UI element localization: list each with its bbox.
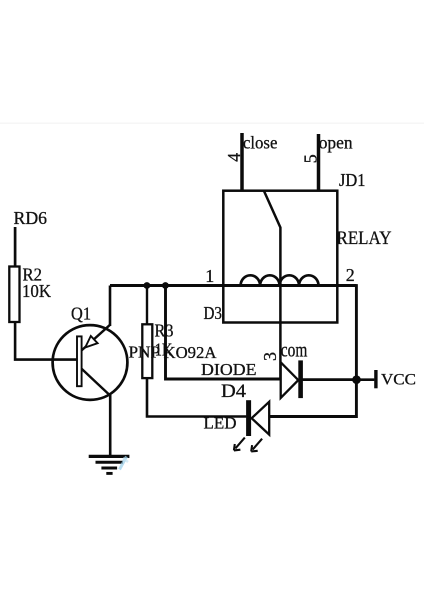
- label D4: [221, 381, 247, 402]
- svg-text:DIODE: DIODE: [201, 360, 257, 379]
- svg-text:Q1: Q1: [71, 304, 91, 324]
- junction node diode rail: [162, 282, 169, 289]
- svg-text:4: 4: [224, 153, 244, 162]
- svg-text:JD1: JD1: [339, 170, 366, 190]
- resistor R2: [9, 267, 19, 323]
- transistor Q1: [53, 325, 128, 400]
- wire pin 4: [240, 133, 244, 191]
- label Q1: [71, 304, 91, 324]
- node RD6 label: [14, 208, 48, 228]
- svg-text:3: 3: [260, 352, 280, 361]
- relay coil: [241, 275, 319, 285]
- watermark smudge: [120, 457, 129, 470]
- wire collector down to ground: [109, 395, 112, 456]
- svg-text:1K: 1K: [155, 339, 173, 359]
- label DIODE: [201, 360, 257, 379]
- wire pin 2 down: [355, 284, 358, 380]
- label open: [319, 133, 353, 153]
- junction node VCC: [352, 375, 361, 384]
- label KO92A: [164, 343, 218, 362]
- pin number 4: [224, 153, 244, 162]
- relay box JD1: [223, 191, 337, 323]
- switch arm and com wire: [264, 191, 280, 380]
- wire emitter up to rail: [109, 286, 112, 327]
- pin number 1: [205, 266, 214, 286]
- wire node to VCC bar: [357, 378, 375, 381]
- pin number 2: [346, 265, 355, 285]
- svg-text:RELAY: RELAY: [337, 228, 392, 249]
- svg-text:2: 2: [346, 265, 355, 285]
- svg-text:R3: R3: [155, 321, 174, 341]
- label R3: [155, 321, 174, 341]
- wire main rail: [110, 284, 356, 287]
- wire D3 cathode to VCC node: [302, 378, 357, 381]
- label close: [243, 133, 278, 153]
- LED D4: [249, 400, 270, 436]
- svg-text:RD6: RD6: [14, 208, 48, 228]
- wire VCC node down to LED: [269, 380, 356, 417]
- svg-text:close: close: [243, 133, 278, 153]
- label JD1: [339, 170, 366, 190]
- value 10K: [22, 281, 51, 301]
- svg-text:com: com: [281, 341, 308, 362]
- label D3: [204, 303, 223, 323]
- wire rail to D3 anode: [166, 286, 281, 380]
- LED arrows: [234, 438, 262, 452]
- wire pin 5: [317, 134, 321, 191]
- value 1K: [155, 339, 173, 359]
- wire R2 to base corner: [15, 323, 77, 360]
- svg-text:1: 1: [205, 266, 214, 286]
- junction node R3: [144, 282, 151, 289]
- diode D3: [281, 360, 301, 398]
- svg-text:LED: LED: [204, 414, 237, 433]
- resistor R3: [142, 324, 152, 378]
- svg-text:VCC: VCC: [381, 372, 416, 389]
- wire R3 to LED: [147, 378, 246, 416]
- svg-text:10K: 10K: [22, 281, 51, 301]
- svg-text:open: open: [319, 133, 353, 153]
- faint scan edge line: [0, 123, 424, 124]
- svg-text:D3: D3: [204, 303, 223, 323]
- wire rail to R3: [146, 286, 148, 325]
- svg-text:5: 5: [301, 154, 321, 163]
- pin number 3: [260, 352, 280, 361]
- label R2: [23, 265, 43, 285]
- svg-text:D4: D4: [221, 381, 247, 402]
- ground: [89, 456, 130, 473]
- label com: [281, 341, 308, 362]
- pin number 5: [301, 154, 321, 163]
- wire RD6 to R2: [14, 227, 17, 266]
- power VCC: [376, 370, 416, 389]
- label RELAY: [337, 228, 392, 249]
- label PNP: [129, 343, 161, 362]
- label LED: [204, 414, 237, 433]
